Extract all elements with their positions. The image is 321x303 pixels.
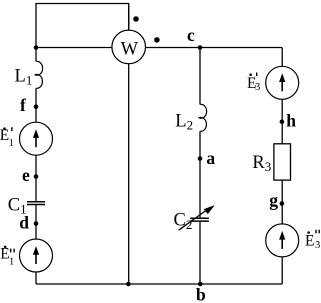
node g bbox=[280, 201, 285, 206]
wire E1p to C1 bbox=[35, 155, 37, 201]
source E3p circle bbox=[266, 66, 299, 99]
wire bottom bbox=[36, 283, 282, 285]
source E3pp arrow bbox=[281, 238, 283, 249]
node e bbox=[34, 174, 39, 179]
node b bbox=[198, 282, 203, 287]
wire main horizontal bbox=[36, 47, 282, 49]
svg-text:3: 3 bbox=[255, 82, 260, 93]
capacitor C1 bbox=[27, 201, 45, 203]
svg-text:3: 3 bbox=[315, 240, 320, 251]
wire left branch bbox=[35, 48, 37, 62]
wire E1pp to bottom bbox=[35, 272, 37, 284]
svg-text:b: b bbox=[196, 285, 206, 303]
wire right branch top bbox=[281, 48, 283, 67]
svg-text:E: E bbox=[305, 232, 314, 249]
wire middle branch top bbox=[199, 48, 201, 105]
svg-text:W: W bbox=[121, 40, 139, 60]
svg-text:c: c bbox=[187, 25, 195, 45]
source E3pp circle bbox=[266, 224, 299, 257]
capacitor C2 bbox=[190, 217, 209, 219]
wire top-left loop bbox=[36, 4, 129, 48]
svg-text:1: 1 bbox=[9, 256, 14, 267]
node h bbox=[280, 120, 285, 125]
node c bbox=[198, 45, 203, 50]
inductor L2 bbox=[199, 104, 206, 131]
source E1p circle bbox=[20, 122, 53, 155]
wire R3 to E3pp bbox=[281, 180, 283, 224]
capacitor C2 variable arrow bbox=[179, 210, 207, 230]
svg-text:f: f bbox=[20, 95, 26, 115]
svg-text:g: g bbox=[269, 190, 278, 210]
node a bbox=[198, 156, 203, 161]
node bottom junction bbox=[126, 282, 131, 287]
node d bbox=[34, 221, 39, 226]
wire f to E1p bbox=[35, 88, 37, 122]
wire C1 to E1pp bbox=[35, 205, 37, 239]
svg-text:e: e bbox=[22, 165, 30, 185]
node junction left bbox=[34, 45, 39, 50]
source E1pp arrow bbox=[35, 253, 37, 264]
wire L2 to C2 bbox=[199, 131, 201, 217]
inductor L1 bbox=[35, 61, 42, 88]
node f bbox=[34, 104, 39, 109]
svg-text:h: h bbox=[286, 111, 296, 131]
svg-text:a: a bbox=[206, 148, 215, 168]
wire C2 to bottom bbox=[199, 222, 201, 284]
source E1pp circle bbox=[20, 239, 53, 272]
wattmeter W bbox=[112, 30, 146, 64]
wattmeter dot top bbox=[133, 16, 139, 22]
wattmeter dot right bbox=[154, 37, 160, 43]
source E1p arrow bbox=[35, 136, 37, 147]
wire E3p to R3 bbox=[281, 99, 283, 144]
wire wattmeter vertical bbox=[128, 4, 130, 285]
resistor R3 bbox=[274, 144, 291, 180]
wire E3pp to bottom bbox=[281, 257, 283, 284]
source E3p arrow bbox=[281, 80, 283, 91]
svg-text:1: 1 bbox=[9, 138, 14, 149]
